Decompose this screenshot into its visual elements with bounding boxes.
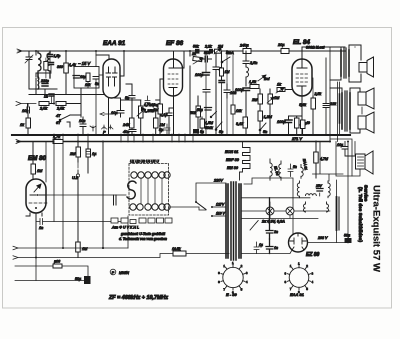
capacitor heater [288,164,297,177]
svg-text:U1 U2 U3 U4 U5 U: U1 U2 U3 U4 U5 U [130,160,159,164]
capacitor 5u on bus [193,129,204,134]
capacitor 220p [40,79,49,86]
capacitor 0,1u cathode [160,108,174,135]
resistor 2M vertical [69,142,81,163]
resistor 2M vertical mid [251,89,263,135]
EAA91 diode plates [106,67,117,73]
wire [87,162,89,173]
svg-text:5n: 5n [293,165,297,169]
capacitor dark at 221 [219,81,225,136]
wire EM80 right feed [45,142,47,183]
wire HV secondary top [244,178,293,235]
bias box -15V [74,67,99,89]
resistor 10k in box [85,73,91,87]
svg-text:100µ: 100µ [277,120,286,124]
svg-text:271 V: 271 V [291,137,302,141]
resistor 150 cathode [295,116,308,135]
svg-text:127V: 127V [216,203,225,207]
capacitor 10u coupling [111,111,124,118]
wire [62,142,64,249]
resistor 1,5k horizontal [249,80,259,89]
svg-text:(2. Teil des Schaltbildes): (2. Teil des Schaltbildes) [358,187,363,243]
capacitor 1,5p dark [49,63,54,73]
svg-text:50µ: 50µ [197,108,203,112]
svg-text:EBF 89: EBF 89 [226,158,240,162]
wire [205,51,207,135]
EM80 target arrow [34,184,41,192]
coil L3 [37,73,40,89]
phono terminals P [102,125,114,135]
svg-text:Aus Ф U V K H L: Aus Ф U V K H L [111,226,139,230]
electrolytic 50u right [344,142,352,244]
capacitor 5n in box [93,77,99,87]
variable capacitor C1 [25,51,33,66]
resistor 1,2M vertical [258,111,273,121]
EAA91 cathodes [107,77,117,86]
electrostatic tweeter SP4 [356,151,374,174]
wire verticals mid-left [53,142,55,222]
EL84 plate [297,63,307,68]
svg-text:500k: 500k [205,126,213,130]
svg-text:2M: 2M [217,45,223,49]
wire screen [312,78,313,96]
heater winding row3 right [327,202,329,212]
svg-text:ECH 81: ECH 81 [225,150,238,154]
electrolytic 25V [315,184,323,191]
tap dot 110V [211,215,213,217]
wire [354,142,356,156]
resistor 50k vertical [190,96,201,135]
choke winding right of EZ80 [336,197,338,230]
electrolytic 100u mid [235,88,250,135]
wire [35,258,37,281]
wire speaker links [361,107,363,114]
wire [29,66,109,104]
wire [49,103,53,105]
wire cathode down [108,98,110,135]
svg-text:E - 80: E - 80 [226,292,237,297]
svg-text:2M: 2M [251,98,258,102]
svg-text:2,2k: 2,2k [204,45,212,49]
tube EZ80 envelope [289,233,308,252]
squiggle winding horizontal [306,194,317,196]
T1 secondary winding [348,50,350,76]
resistor u06 inline bottom [53,260,62,269]
tube EM80 envelope [26,179,46,213]
speaker SP3 [358,112,374,133]
potentiometer 1M [267,89,280,135]
svg-text:10µ: 10µ [80,75,86,79]
resistor 360 [44,58,63,78]
tube EAA91 envelope [103,59,120,98]
wire T1 primary drops [338,82,340,142]
wire [12,134,350,136]
terminal C [16,140,21,144]
output transformer T1 primary winding [340,50,342,76]
wire [77,181,79,242]
wire from bank to mains switch [169,207,206,210]
svg-text:1n: 1n [44,95,48,99]
switch contacts bottom row [130,204,170,210]
wire right drop [329,47,331,142]
switch contacts top row [131,172,170,178]
wire [127,216,129,248]
wire 110V tap [212,215,226,217]
connector U.B [72,170,80,181]
wire heater net [313,142,344,197]
tap dot 127V [211,206,213,208]
resistor 1k vertical [20,118,31,135]
svg-text:40: 40 [306,121,310,125]
wire cathode down [301,96,303,135]
wire choke [336,180,338,243]
resistor 1M vertical right [154,112,166,135]
switch 5n6 [259,123,267,134]
svg-text:P: P [103,130,106,135]
resistor 10,5k inline [172,247,186,256]
EF86 plate [169,64,178,69]
svg-text:2,5k: 2,5k [56,107,65,111]
svg-text:2n: 2n [273,230,278,234]
capacitor 10n bottom [79,117,86,135]
wire bottom rail 3 [15,280,84,282]
potentiometer Bal diagonal [258,75,270,81]
heater chain bumps [240,142,251,181]
capacitor 30n dark [48,51,61,63]
pilot lamp 2 [274,207,330,218]
svg-text:Service: Service [364,185,369,202]
svg-text:5,6k: 5,6k [299,103,306,107]
wire heater to EZ80 [241,250,292,254]
junction [102,247,104,249]
wire [66,88,81,117]
switch lever small [210,112,216,118]
capacitor 40n [123,128,136,135]
resistor 2,5k horizontal second [56,102,66,111]
svg-text:EM 80: EM 80 [28,155,46,162]
wire 127V tap [212,206,226,208]
svg-text:gezeichnet: U-Taste gedrückt: gezeichnet: U-Taste gedrückt [121,232,166,236]
capacitor 1u near EZ80 [254,242,263,254]
button squares row [111,218,172,224]
EL84 grids [296,74,308,82]
S-coil symbol [127,181,136,199]
junction dots bottom [35,257,37,259]
terminal A (antenna input arrow) [17,49,22,53]
svg-text:360: 360 [57,65,63,69]
svg-text:4T: 4T [56,114,61,118]
svg-text:1n: 1n [274,246,278,250]
wire top pin [32,178,34,180]
resistor 24k vertical [122,118,134,128]
svg-text:240µ: 240µ [239,44,249,48]
svg-text:50µ: 50µ [75,277,81,281]
wire top cap to transformer [302,47,345,63]
junction dots on buses [35,50,349,143]
svg-text:1,5M: 1,5M [205,121,213,125]
svg-text:4,7M: 4,7M [320,157,328,161]
svg-text:1M: 1M [274,96,280,100]
EM80 grid dot [37,194,39,196]
ground fork [90,126,96,131]
wire junction [53,103,55,105]
svg-text:2M: 2M [69,152,76,156]
switch S1 lever [56,114,70,125]
svg-text:298 V: 298 V [317,236,328,240]
junction [102,247,104,249]
tube EF86 envelope [164,59,183,96]
wire T2 secondary to speakers [350,88,360,133]
switch lever 5n top [221,51,234,63]
output transformer T2 primary winding [340,93,343,129]
svg-text:EAA 91: EAA 91 [103,40,126,47]
svg-text:10n: 10n [79,119,85,123]
resistor 1M grid leak [153,100,163,135]
EM80 dashed electrode [29,202,47,204]
choke 20u [277,43,289,54]
wire box to tube [99,74,103,76]
wire EM80 cathode down [35,218,37,258]
EL84 cathode [297,86,306,96]
grid stopper 1k [276,83,290,94]
switch bank dashed box [129,164,169,216]
svg-text:1n: 1n [39,226,43,230]
electrolytic 50u bottom-left [75,276,91,284]
svg-text:2x 6,3V, 0,3A: 2x 6,3V, 0,3A [261,220,285,224]
svg-text:2,5k: 2,5k [39,107,48,111]
capacitor 100u screen [224,84,236,98]
wire right vertical long [354,46,356,48]
socket E-80 circle [218,261,248,297]
electrolytic 100u [195,73,210,78]
circled P note [110,269,129,275]
capacitor 50u b [266,239,278,254]
svg-text:EF 86: EF 86 [166,40,183,47]
coil L1 [38,51,41,78]
resistor 5u left of EF86 bottom [159,124,170,135]
terminal arrow bottom left 2 [13,254,229,260]
terminal arrow bottom left 1 [13,246,128,250]
svg-text:50µ: 50µ [344,234,350,238]
wire from box [81,51,96,135]
svg-text:220p: 220p [40,79,49,83]
T2 secondary winding [349,93,351,129]
svg-text:5µ: 5µ [200,130,204,134]
choke 240u [239,44,251,54]
wire right return frame [330,139,352,176]
capacitor 10n [22,104,30,122]
resistor 1,5M vertical [200,117,213,135]
transformer primary winding [226,184,228,258]
heater winding EAA91 [279,158,308,180]
svg-text:100µ: 100µ [235,88,244,92]
electrolytic at 209 [197,108,212,113]
wire secondary to speaker1 [349,45,361,82]
tube top connection [96,55,109,59]
svg-text:1,2M: 1,2M [264,115,273,119]
T1 core [344,48,346,78]
svg-text:MW/N: MW/N [119,271,129,275]
wire heater winding taps [241,198,318,230]
wire [121,98,141,100]
wire [189,51,191,135]
svg-text:220V: 220V [213,179,223,183]
wire [77,162,79,168]
svg-text:25V: 25V [315,184,323,188]
resistor 1,7k inline [53,135,63,144]
svg-text:110 V: 110 V [216,212,226,216]
switch 5n bottom [215,122,223,134]
svg-text:Ultra-Exquisit 57 W: Ultra-Exquisit 57 W [371,185,382,272]
svg-text:d. Tastensatz von vorn gesehen: d. Tastensatz von vorn gesehen [119,237,167,241]
svg-text:10µ: 10µ [111,111,118,115]
heater winding row2 left [297,181,299,198]
svg-text:24k: 24k [122,123,130,127]
svg-text:18k: 18k [236,109,242,113]
capacitor 1n under EM80 [36,219,128,231]
svg-text:− 15 V: − 15 V [78,61,91,66]
EZ80 plates [290,233,306,250]
resistor at 233 [231,51,242,135]
svg-text:40n: 40n [123,130,129,134]
wire top cap [173,51,175,63]
wire from tube right pin [120,51,124,76]
EF86 cathode [169,88,177,97]
wire [126,84,132,118]
coil small [246,67,249,86]
svg-text:5n: 5n [95,82,99,86]
capacitor 23k feedback [323,58,337,135]
wire T2 top [330,88,342,93]
electrolytic 100u cathode [277,116,302,135]
wire [18,50,345,52]
terminal arrow left [100,113,112,116]
svg-text:100µ: 100µ [195,73,203,77]
wire [17,141,330,143]
wire [35,51,37,95]
svg-text:2,5k: 2,5k [314,92,322,96]
svg-text:EM 80: EM 80 [227,166,239,170]
svg-text:1M: 1M [153,108,159,112]
wire grid line right [46,194,126,196]
capacitor 2,5n [243,51,257,67]
wire 220V tap [196,183,226,201]
svg-text:5n: 5n [263,130,267,134]
wire grid [290,78,292,90]
EF86 grids [168,74,178,84]
wire [36,73,51,77]
svg-text:1,5p: 1,5p [54,54,61,58]
transformer secondary winding [239,184,241,258]
potentiometer 1.25M volume [137,100,161,135]
resistor 40 cathode2 [301,120,310,135]
mains switch lever [196,202,206,210]
inline box on bus 2,2k [193,45,200,54]
resistor 1M at 221 [220,51,230,80]
wire pins down [26,213,42,218]
wire cathode down [173,96,175,135]
wire [226,51,228,135]
heater winding row2 right [328,181,330,198]
svg-text:1,5k: 1,5k [249,80,257,84]
heater winding row3 left [304,202,306,212]
wire ticks bus to rail [54,134,193,142]
resistor 1k vertical [86,142,97,174]
wire bottom rail 2 [15,266,88,276]
wire EZ80 cathode to rail [308,238,349,243]
heater winding EAA91b [301,165,303,179]
wire tweeter return [336,142,360,177]
wire long vertical x103 [102,142,104,249]
capacitor 0,1u tweeter [337,142,356,157]
pot 2M inline on bus [214,45,223,55]
wire [67,115,81,127]
capacitor 700p [145,96,150,106]
capacitor 5n [125,94,135,101]
variable resistor 2k [191,52,203,64]
label 0,2u on bus [204,45,213,54]
capacitor 1n mid [213,62,223,74]
socket EAA91 circle [285,262,314,298]
resistor 9,1k [236,117,248,128]
svg-text:1µ: 1µ [259,243,263,247]
wire [215,51,217,135]
vertical link wires in bank [141,178,162,204]
wire primary top [330,47,345,80]
switch pivot dot [195,201,197,203]
svg-text:2,5n: 2,5n [249,61,257,65]
EM80 cathode dot [35,207,37,209]
resistor 1,4k [64,51,76,95]
speaker SP2 [358,88,374,109]
coil L2 [47,51,50,78]
wire [115,98,121,110]
resistor 1M bottom left [76,242,88,258]
transformer core [231,182,236,260]
choke core [338,197,340,230]
svg-text:Bal: Bal [264,77,270,81]
resistor 5,6k screen [299,92,321,135]
speaker SP1 [359,57,374,77]
capacitor bars at bank left [114,195,117,205]
svg-text:10n: 10n [22,109,28,113]
svg-text:EAA 91: EAA 91 [290,292,305,297]
svg-text:50k: 50k [193,45,199,49]
svg-text:1M: 1M [37,169,43,173]
T2 core [345,91,347,131]
capacitor 500 [201,51,212,62]
resistor 1M top of EM80 [31,142,43,180]
capacitor 10u in box [73,75,86,79]
wire long vertical x103 [102,142,104,249]
svg-text:6T: 6T [56,121,61,125]
svg-text:ZF = 468kHz + 10,7MHz: ZF = 468kHz + 10,7MHz [108,295,168,301]
heater winding EL84 [270,159,279,180]
svg-text:20µ: 20µ [277,43,285,47]
capacitor 50u a [266,198,278,239]
resistor 4,7M vertical [314,142,328,179]
resistor 2,5k horizontal [39,102,49,111]
svg-text:EZ 80: EZ 80 [306,252,320,258]
svg-text:10µ: 10µ [337,143,343,147]
svg-text:µ06: µ06 [54,260,60,264]
capacitor 1n C4 [44,94,54,104]
capacitor mid [203,90,210,93]
terminal B [16,102,36,106]
svg-text:9,1k: 9,1k [236,122,244,126]
svg-text:5n: 5n [125,96,129,100]
wire anode up [178,51,184,68]
